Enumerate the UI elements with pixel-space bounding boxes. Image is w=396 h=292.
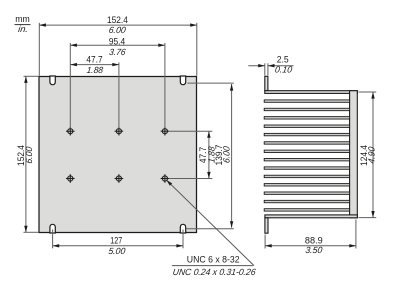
fin 11: [264, 184, 349, 186]
dimension 152.4 / 6.00 overall width: [38, 23, 40, 76]
top flange lip: [265, 76, 268, 90]
dimension 88.9 / 3.50 depth: [264, 235, 266, 249]
dimension 2.5 / 0.10 flange thickness: [264, 63, 266, 75]
svg-text:88.9: 88.9: [305, 235, 323, 245]
front view: mounting plate 152.4 x 152.4: [39, 77, 197, 233]
svg-text:in.: in.: [18, 24, 29, 34]
fin 3: [264, 117, 349, 119]
dimension 47.7 / 1.88 hole spacing vertical (rotated): [169, 130, 212, 132]
fin 6: [264, 142, 349, 144]
svg-text:6.00: 6.00: [108, 25, 126, 35]
fin 14: [264, 209, 349, 211]
svg-text:2.5: 2.5: [277, 54, 289, 64]
dimension 47.7 / 1.88 hole spacing horizontal: [118, 62, 120, 128]
svg-text:5.00: 5.00: [108, 246, 126, 256]
svg-text:3.50: 3.50: [305, 245, 323, 255]
fin 5: [264, 133, 349, 135]
svg-text:UNC 0.24 x 0.31-0.26: UNC 0.24 x 0.31-0.26: [172, 267, 257, 277]
top-right mounting slot: [180, 76, 185, 85]
tapped hole H4: [66, 174, 75, 183]
fin 7: [264, 150, 349, 152]
top bar: [265, 91, 358, 94]
svg-text:4.90: 4.90: [366, 146, 376, 164]
dimension 139.7 / 5.50 slot-to-slot vertical (rotated): [187, 82, 234, 84]
svg-text:6.00: 6.00: [24, 146, 34, 164]
fin 12: [264, 192, 349, 194]
leader line UNC thread callout: [167, 181, 254, 266]
bottom-right mounting slot: [180, 224, 185, 233]
svg-text:1.88: 1.88: [86, 65, 103, 75]
svg-text:95.4: 95.4: [109, 36, 125, 46]
svg-text:152.4: 152.4: [107, 15, 128, 25]
fin 10: [264, 175, 349, 177]
svg-text:6.00: 6.00: [221, 146, 231, 164]
base bar: [350, 91, 358, 218]
bottom flange lip: [265, 218, 268, 233]
tapped hole H1: [66, 127, 75, 136]
dimension 127 / 5.00 slot spacing: [52, 230, 54, 249]
svg-text:47.7: 47.7: [86, 54, 102, 64]
tapped hole H2: [115, 127, 124, 136]
tapped hole H3: [161, 127, 170, 136]
top-left mounting slot: [50, 76, 55, 85]
fin 4: [264, 125, 349, 127]
svg-text:mm: mm: [15, 14, 30, 24]
dimension 152.4 / 6.00 overall height (left, rotated): [24, 75, 39, 77]
tapped hole H5: [115, 174, 124, 183]
svg-text:UNC 6 x 8-32: UNC 6 x 8-32: [187, 255, 240, 265]
fin 8: [264, 158, 349, 160]
svg-text:127: 127: [110, 236, 122, 246]
fin 2: [264, 108, 349, 110]
fin 13: [264, 200, 349, 202]
tapped hole H6: [161, 174, 170, 183]
fin 9: [264, 167, 349, 169]
bottom bar: [265, 215, 357, 218]
svg-text:3.76: 3.76: [109, 47, 127, 57]
fin 1: [264, 100, 349, 102]
bottom-left mounting slot: [50, 224, 55, 233]
svg-text:0.10: 0.10: [274, 65, 292, 75]
dimension 95.4 / 3.76 outer hole spacing: [69, 43, 71, 128]
dimension 124.4 / 4.90 fin span (rotated): [359, 91, 377, 93]
